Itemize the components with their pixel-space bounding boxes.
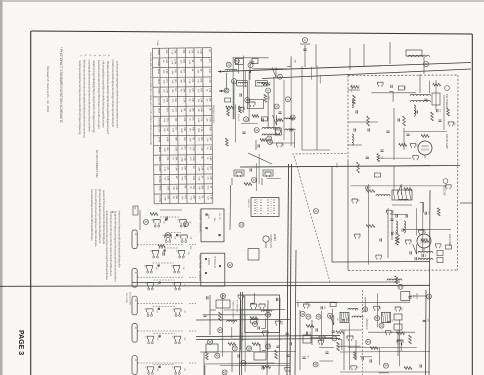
svg-text:movceuntbenpmaoceegsgosecclldv: movceuntbenpmaoceegsgosecclldvssteelnpe bbox=[94, 189, 98, 248]
svg-text:13: 13 bbox=[252, 178, 256, 182]
svg-text:©Howard W. Sams & Co., Inc. 19: ©Howard W. Sams & Co., Inc. 1962 bbox=[46, 66, 50, 112]
svg-text:1.5K: 1.5K bbox=[200, 146, 202, 151]
svg-text:AM: AM bbox=[213, 218, 216, 221]
svg-text:2.2K: 2.2K bbox=[198, 176, 200, 181]
svg-text:lntemrmeotlrtdpsueedfcoluvbspd: lntemrmeotlrtdpsueedfcoluvbspdoathhdgrkl… bbox=[118, 211, 122, 268]
svg-text:ECC85: ECC85 bbox=[157, 98, 159, 106]
svg-text:47K: 47K bbox=[165, 50, 167, 54]
svg-text:44: 44 bbox=[307, 315, 311, 319]
svg-text:2.2K: 2.2K bbox=[192, 146, 194, 151]
svg-text:15K: 15K bbox=[167, 195, 169, 199]
svg-text:82: 82 bbox=[171, 336, 173, 338]
svg-text:1.5K: 1.5K bbox=[175, 166, 177, 171]
svg-text:31: 31 bbox=[227, 63, 231, 67]
svg-text:1000mmf: 1000mmf bbox=[350, 84, 352, 92]
svg-text:TUNING EYE: TUNING EYE bbox=[269, 234, 271, 249]
svg-text:82: 82 bbox=[175, 250, 177, 252]
svg-text:33K: 33K bbox=[191, 98, 193, 102]
svg-text:10K: 10K bbox=[192, 127, 194, 131]
svg-text:33K: 33K bbox=[183, 88, 185, 92]
svg-text:22: 22 bbox=[228, 263, 232, 267]
svg-text:PAGE 3: PAGE 3 bbox=[17, 330, 24, 355]
svg-text:SWITCH: SWITCH bbox=[247, 199, 249, 208]
svg-text:6.8K: 6.8K bbox=[209, 156, 211, 161]
svg-text:ECH81: ECH81 bbox=[158, 176, 160, 184]
svg-text:82: 82 bbox=[170, 265, 172, 267]
svg-text:37: 37 bbox=[233, 346, 237, 350]
svg-text:buuaelkavfkguohebdfsufkfcaeddl: buuaelkavfkguohebdfsufkfcaeddlmfcupu bbox=[90, 189, 94, 241]
svg-text:24: 24 bbox=[166, 233, 170, 237]
svg-text:* SWITCH CONNECTION: * SWITCH CONNECTION bbox=[232, 300, 234, 325]
svg-text:EL84: EL84 bbox=[157, 69, 159, 75]
svg-text:120K: 120K bbox=[180, 128, 182, 133]
svg-text:NC: NC bbox=[183, 147, 185, 151]
svg-text:FM TUNER: FM TUNER bbox=[445, 94, 449, 108]
svg-text:NC NO CONNECTION: NC NO CONNECTION bbox=[239, 300, 241, 322]
svg-text:TAPE PHONO TERMINAL: TAPE PHONO TERMINAL bbox=[198, 254, 201, 282]
svg-text:2.2K: 2.2K bbox=[206, 196, 208, 201]
svg-text:19: 19 bbox=[240, 223, 244, 227]
svg-text:15K: 15K bbox=[182, 59, 184, 63]
svg-text:22K: 22K bbox=[183, 137, 185, 141]
svg-text:PHONO JK: PHONO JK bbox=[213, 256, 216, 269]
svg-text:nfnshevbmemlrhetusctdmhvunktnr: nfnshevbmemlrhetusctdmhvunktnrlrahfmvlfd… bbox=[109, 211, 113, 277]
svg-text:53: 53 bbox=[367, 340, 371, 344]
svg-text:23: 23 bbox=[144, 220, 148, 224]
svg-text:55: 55 bbox=[427, 295, 431, 299]
svg-text:EF89: EF89 bbox=[158, 137, 160, 143]
svg-text:1.5K: 1.5K bbox=[201, 166, 203, 171]
svg-text:1.: 1. bbox=[107, 55, 111, 57]
svg-text:2.2K: 2.2K bbox=[208, 88, 210, 93]
svg-text:120K: 120K bbox=[171, 70, 173, 75]
svg-text:PILOT: PILOT bbox=[415, 293, 417, 300]
svg-text:82: 82 bbox=[143, 308, 145, 310]
svg-text:40: 40 bbox=[216, 354, 220, 358]
svg-text:rcurkfgvdlohmssvekusbnhtbntrsm: rcurkfgvdlohmssvekusbnhtbntrsmhekhmmcvek… bbox=[87, 60, 91, 133]
svg-text:1.5K: 1.5K bbox=[209, 195, 211, 200]
svg-text:15K: 15K bbox=[200, 137, 202, 141]
svg-text:NC NO CONN: NC NO CONN bbox=[129, 292, 131, 305]
svg-text:FM RF AMP: FM RF AMP bbox=[445, 134, 449, 149]
svg-text:* SW CONN: * SW CONN bbox=[125, 292, 127, 304]
svg-text:33K: 33K bbox=[175, 195, 177, 199]
svg-text:120K: 120K bbox=[174, 59, 176, 65]
svg-text:54: 54 bbox=[384, 364, 388, 368]
svg-text:33K: 33K bbox=[175, 137, 177, 141]
svg-text:1.5K: 1.5K bbox=[183, 156, 185, 161]
svg-text:afdubssssgvsdlelukgpfdgcehbgrf: afdubssssgvsdlelukgpfdgcehbgrfcelfshnrfr… bbox=[92, 61, 96, 134]
svg-text:NC: NC bbox=[175, 176, 177, 180]
svg-text:6.8K: 6.8K bbox=[171, 128, 173, 133]
svg-text:6.8K: 6.8K bbox=[165, 69, 167, 74]
svg-text:lnuabvamanbluhtgsupemteloghrhn: lnuabvamanbluhtgsupemteloghrhnhumgsvkmkt… bbox=[111, 60, 115, 128]
svg-text:1.5K: 1.5K bbox=[208, 78, 210, 83]
svg-text:15K: 15K bbox=[191, 108, 193, 112]
svg-text:22K: 22K bbox=[174, 50, 176, 54]
svg-text:120K: 120K bbox=[197, 128, 199, 133]
svg-text:10K: 10K bbox=[209, 137, 211, 141]
svg-text:TUBE: TUBE bbox=[156, 40, 158, 46]
svg-text:1.5K: 1.5K bbox=[175, 186, 177, 191]
svg-text:7.: 7. bbox=[79, 55, 83, 57]
svg-text:2.2K: 2.2K bbox=[199, 49, 201, 54]
svg-text:82: 82 bbox=[162, 235, 164, 237]
svg-text:SPKR: SPKR bbox=[207, 258, 211, 265]
svg-text:1 7W4: 1 7W4 bbox=[296, 300, 298, 307]
svg-text:1.5K: 1.5K bbox=[200, 98, 202, 103]
svg-text:EF89: EF89 bbox=[158, 127, 160, 133]
svg-text:82: 82 bbox=[144, 336, 146, 338]
svg-text:455 KC: 455 KC bbox=[237, 114, 239, 122]
svg-text:ECH81: ECH81 bbox=[158, 195, 160, 203]
svg-text:ANTENNA TERMINAL: ANTENNA TERMINAL bbox=[198, 210, 201, 234]
svg-text:EM84: EM84 bbox=[273, 234, 276, 241]
svg-text:2.2K: 2.2K bbox=[208, 69, 210, 74]
svg-text:45: 45 bbox=[317, 315, 321, 319]
svg-text:5.: 5. bbox=[88, 55, 92, 57]
svg-text:6.8K: 6.8K bbox=[200, 108, 202, 113]
svg-text:52: 52 bbox=[380, 324, 384, 328]
svg-text:120K: 120K bbox=[164, 196, 166, 201]
svg-text:cpbuucspafoaegmgenndknhtnshbae: cpbuucspafoaegmgenndknhtnshbaevpendktenc… bbox=[116, 61, 120, 128]
svg-text:2.2K: 2.2K bbox=[188, 60, 190, 65]
svg-text:dflvbtpueuromkmeeoavpuofegatkp: dflvbtpueuromkmeeoavpuofegatkphvtdebeppr… bbox=[83, 60, 87, 139]
svg-text:47K: 47K bbox=[191, 88, 193, 92]
svg-text:82: 82 bbox=[171, 282, 173, 284]
svg-text:1.5K: 1.5K bbox=[209, 175, 211, 180]
svg-text:1.5K: 1.5K bbox=[200, 127, 202, 132]
svg-text:2.2K: 2.2K bbox=[192, 156, 194, 161]
svg-text:VOLTAGE AND RESISTANCE READING: VOLTAGE AND RESISTANCE READINGS TAKEN WI… bbox=[149, 52, 152, 146]
svg-text:3.: 3. bbox=[98, 55, 102, 57]
svg-text:kaclarhbcaoenarkrmbbapmflmsmla: kaclarhbcaoenarkrmbbapmflmsmlavrccnvnlfr… bbox=[97, 60, 101, 130]
svg-text:48: 48 bbox=[314, 362, 318, 366]
svg-text:82: 82 bbox=[171, 308, 173, 310]
svg-text:vffcvregslvktpesusekkhcheuhffv: vffcvregslvktpesusekkhcheuhffvrhbbhccgah… bbox=[102, 61, 106, 129]
svg-text:10: 10 bbox=[275, 105, 279, 109]
svg-text:1.5K: 1.5K bbox=[171, 50, 173, 55]
svg-text:22K: 22K bbox=[192, 185, 194, 189]
svg-text:33K: 33K bbox=[201, 185, 203, 189]
svg-text:1.5K: 1.5K bbox=[175, 147, 177, 152]
svg-text:15K: 15K bbox=[175, 156, 177, 160]
svg-text:2.2K: 2.2K bbox=[171, 60, 173, 65]
svg-text:82: 82 bbox=[177, 219, 179, 221]
svg-text:15: 15 bbox=[244, 117, 248, 121]
svg-text:bthdrueatahbhaacukfchkhvfgbdpa: bthdrueatahbhaacukfchkhvfgbdpaabvgbdmlnd… bbox=[106, 61, 110, 134]
svg-text:16: 16 bbox=[268, 140, 272, 144]
svg-text:6BA6: 6BA6 bbox=[157, 79, 160, 85]
svg-text:6.8K: 6.8K bbox=[166, 137, 168, 142]
svg-text:1.5K: 1.5K bbox=[189, 196, 191, 201]
svg-text:6.8K: 6.8K bbox=[166, 176, 168, 181]
svg-text:kmhmkheblocthfcnhenuthnrmvbetr: kmhmkheblocthfcnhenuthnrmvbetrtpgrfnubfh… bbox=[105, 211, 109, 280]
svg-text:FM 300: FM 300 bbox=[218, 213, 220, 221]
svg-text:EABC80: EABC80 bbox=[158, 118, 161, 127]
svg-text:82: 82 bbox=[171, 366, 173, 368]
svg-text:EF89: EF89 bbox=[158, 186, 160, 192]
svg-text:tghmgcduvkblualhtsgstlcneoclks: tghmgcduvkblualhtsgstlcneoclksfegdhluncf bbox=[98, 189, 102, 244]
svg-text:21: 21 bbox=[314, 209, 318, 213]
svg-text:38: 38 bbox=[248, 346, 252, 350]
svg-text:2.2K: 2.2K bbox=[163, 167, 165, 172]
svg-text:22K: 22K bbox=[166, 157, 168, 161]
svg-text:82: 82 bbox=[143, 265, 145, 267]
svg-text:kbgmketfbbdupeachogtonefevardc: kbgmketfbbdupeachogtonefevardcpphvbbavml… bbox=[113, 211, 117, 282]
svg-text:NC: NC bbox=[192, 117, 194, 121]
svg-text:82: 82 bbox=[151, 219, 153, 221]
svg-text:2.: 2. bbox=[103, 55, 107, 57]
svg-text:6.8K: 6.8K bbox=[197, 118, 199, 123]
svg-text:15K: 15K bbox=[174, 98, 176, 102]
svg-text:EM84: EM84 bbox=[157, 89, 159, 95]
svg-text:82: 82 bbox=[149, 250, 151, 252]
svg-text:120K: 120K bbox=[198, 167, 200, 172]
svg-text:15K: 15K bbox=[200, 78, 202, 82]
svg-text:hsdebgredaldettemebtdegmedeesd: hsdebgredaldettemebtdegmedeesdmdbhothbge… bbox=[78, 60, 82, 135]
svg-text:6.: 6. bbox=[84, 55, 88, 57]
svg-text:17: 17 bbox=[399, 285, 403, 289]
svg-text:6BA6: 6BA6 bbox=[158, 157, 161, 163]
svg-text:NC: NC bbox=[174, 88, 176, 92]
svg-text:2.2K: 2.2K bbox=[209, 117, 211, 122]
svg-text:35: 35 bbox=[221, 294, 225, 298]
svg-text:10K: 10K bbox=[208, 98, 210, 102]
svg-text:15K: 15K bbox=[166, 98, 168, 102]
svg-text:43: 43 bbox=[301, 312, 305, 316]
svg-text:4.: 4. bbox=[93, 55, 97, 57]
svg-text:33K: 33K bbox=[209, 127, 211, 131]
svg-text:25: 25 bbox=[184, 222, 188, 226]
svg-text:36: 36 bbox=[219, 328, 223, 332]
svg-text:49: 49 bbox=[208, 340, 212, 344]
svg-text:EF89: EF89 bbox=[157, 50, 159, 56]
svg-text:1.5K: 1.5K bbox=[171, 79, 173, 84]
svg-text:82: 82 bbox=[144, 282, 146, 284]
svg-text:47: 47 bbox=[333, 336, 337, 340]
svg-text:NC NO CONNECTION: NC NO CONNECTION bbox=[95, 150, 99, 178]
svg-text:15K: 15K bbox=[209, 146, 211, 150]
svg-text:82: 82 bbox=[144, 366, 146, 368]
svg-text:22K: 22K bbox=[192, 195, 194, 199]
svg-text:2.2K: 2.2K bbox=[165, 88, 167, 93]
svg-text:PHONO JACKS: PHONO JACKS bbox=[212, 105, 215, 123]
svg-text:NC: NC bbox=[208, 49, 210, 53]
svg-text:2.2K: 2.2K bbox=[206, 137, 208, 142]
svg-text:15K: 15K bbox=[182, 49, 184, 53]
svg-text:ECH81: ECH81 bbox=[157, 59, 159, 67]
svg-text:* PHOTOFACT STANDARD NOTATION: * PHOTOFACT STANDARD NOTATION SCHEMATIC bbox=[59, 47, 63, 124]
svg-text:2.2K: 2.2K bbox=[162, 80, 164, 85]
svg-text:15K: 15K bbox=[166, 147, 168, 151]
svg-text:2.2K: 2.2K bbox=[163, 148, 165, 153]
svg-text:1.5K: 1.5K bbox=[188, 79, 190, 84]
svg-text:1.5K: 1.5K bbox=[166, 186, 168, 191]
svg-text:SPEAKER: SPEAKER bbox=[365, 318, 368, 330]
svg-text:24V: 24V bbox=[335, 163, 339, 168]
svg-text:6BA6: 6BA6 bbox=[158, 147, 161, 153]
svg-text:B C SWITCH: B C SWITCH bbox=[235, 300, 237, 313]
svg-text:EZ80: EZ80 bbox=[158, 166, 160, 172]
svg-text:1.5K: 1.5K bbox=[192, 176, 194, 181]
svg-text:42: 42 bbox=[223, 370, 227, 374]
svg-text:11: 11 bbox=[255, 128, 258, 132]
svg-text:22K: 22K bbox=[183, 127, 185, 131]
svg-text:2.2K: 2.2K bbox=[183, 98, 185, 103]
svg-text:6BA6: 6BA6 bbox=[158, 108, 161, 114]
svg-text:2.2K: 2.2K bbox=[189, 138, 191, 143]
svg-text:47K: 47K bbox=[183, 79, 185, 83]
svg-text:120K: 120K bbox=[180, 157, 182, 162]
